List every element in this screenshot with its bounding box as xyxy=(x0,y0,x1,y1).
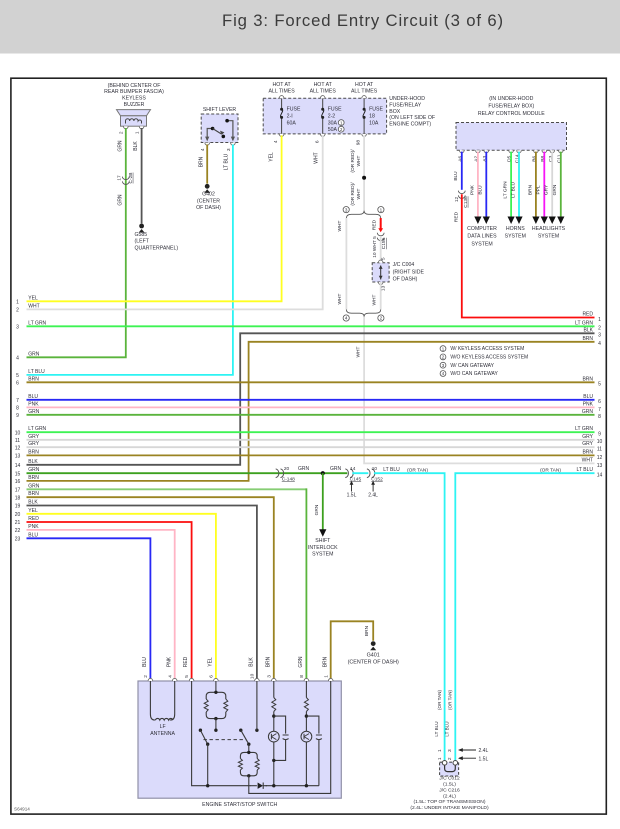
splice dot on WHT wire xyxy=(362,176,366,180)
svg-text:KEYLESS: KEYLESS xyxy=(122,96,146,102)
wire WHT fuse 18 down to split xyxy=(363,135,365,211)
variant circle 4 bottom left xyxy=(343,315,349,321)
svg-text:SYSTEM: SYSTEM xyxy=(538,234,559,240)
connector 10 C152 xyxy=(367,466,383,482)
wire row 17 drop to switch xyxy=(27,488,307,490)
svg-text:WHT: WHT xyxy=(356,188,362,199)
connector 20 C-148 on row 15 xyxy=(276,466,295,482)
svg-text:2-I: 2-I xyxy=(287,114,293,120)
wire WHT right branch above junction block xyxy=(380,236,382,263)
C012 pin labels 2.4L xyxy=(437,748,489,754)
svg-text:BRN: BRN xyxy=(527,184,533,195)
svg-text:Fig 3: Forced Entry Circuit (3: Fig 3: Forced Entry Circuit (3 of 6) xyxy=(222,11,504,30)
wire WHT fuse 2-2 to left row 2 xyxy=(27,135,323,309)
svg-text:LT BLU: LT BLU xyxy=(434,721,439,736)
svg-text:4: 4 xyxy=(200,148,206,151)
svg-text:2.4L: 2.4L xyxy=(479,748,489,754)
wire GRN from relay module pin C11 to system arrow xyxy=(560,152,562,217)
switch pin number labels xyxy=(143,673,329,679)
svg-text:4: 4 xyxy=(345,316,348,321)
svg-text:3: 3 xyxy=(16,325,19,331)
svg-text:2-2: 2-2 xyxy=(328,114,336,120)
wire PNK from relay module pin A2 to system arrow xyxy=(477,152,479,217)
connector C156 on right branch xyxy=(377,233,387,249)
wire GRY from relay module pin C3 to system arrow xyxy=(551,152,553,217)
svg-text:SHIFT: SHIFT xyxy=(315,538,331,544)
svg-text:3: 3 xyxy=(345,207,348,212)
transistor circuit at pin 3 xyxy=(268,681,289,787)
arrow pin B6 xyxy=(532,217,539,225)
svg-text:C136: C136 xyxy=(463,196,469,208)
svg-text:(1.5L): (1.5L) xyxy=(443,782,456,788)
svg-text:4: 4 xyxy=(273,140,279,143)
svg-text:10: 10 xyxy=(597,439,603,445)
svg-text:C156: C156 xyxy=(381,237,387,249)
svg-text:50A: 50A xyxy=(328,127,338,133)
wire row 10 across xyxy=(27,431,595,433)
wire row 7 across xyxy=(27,399,595,401)
svg-text:(1.5L: TOP OF TRANSMISSION): (1.5L: TOP OF TRANSMISSION) xyxy=(414,799,486,805)
variant circle 2 bottom right xyxy=(378,315,384,321)
svg-text:2: 2 xyxy=(119,131,125,134)
rail junction dot left switch xyxy=(206,784,209,787)
svg-text:6: 6 xyxy=(314,140,320,143)
svg-text:W/ KEYLESS ACCESS SYSTEM: W/ KEYLESS ACCESS SYSTEM xyxy=(450,346,524,352)
svg-text:7: 7 xyxy=(16,398,19,404)
connector 12 C136 on A6 wire xyxy=(454,191,469,208)
wire row 18 drop to switch xyxy=(27,497,274,679)
resistor pair loop below right switch xyxy=(238,751,259,778)
svg-text:7: 7 xyxy=(598,407,601,413)
wire BRN shift lever pin 4 to ground G402 xyxy=(206,144,208,183)
C012 pin labels 1.5L xyxy=(437,756,489,762)
svg-text:PPL: PPL xyxy=(536,185,542,194)
svg-text:W/ CAN GATEWAY: W/ CAN GATEWAY xyxy=(450,363,494,369)
svg-text:RED: RED xyxy=(183,656,189,667)
connector 14 C145 xyxy=(345,466,361,482)
svg-text:12: 12 xyxy=(15,445,21,451)
hot at all times labels xyxy=(268,82,377,94)
svg-text:6: 6 xyxy=(16,381,19,387)
svg-text:COMPUTER: COMPUTER xyxy=(467,226,497,232)
svg-text:2: 2 xyxy=(598,326,601,332)
arrow pin C14 xyxy=(515,217,522,225)
ganged switch right half xyxy=(239,729,259,753)
svg-text:RED: RED xyxy=(372,219,378,230)
wire BRN right row 4 to left row 16 xyxy=(27,342,595,481)
arrow pin C3 xyxy=(549,217,556,225)
svg-text:1: 1 xyxy=(437,749,443,752)
svg-text:(2.4L): (2.4L) xyxy=(443,793,456,799)
svg-text:HOT AT: HOT AT xyxy=(272,82,291,88)
svg-text:SYSTEM: SYSTEM xyxy=(505,234,526,240)
svg-text:14: 14 xyxy=(350,466,356,472)
shift interlock system caption xyxy=(308,538,338,557)
svg-text:BLU: BLU xyxy=(453,171,459,181)
svg-text:LT GRN: LT GRN xyxy=(503,181,509,199)
svg-text:4: 4 xyxy=(598,341,601,347)
svg-text:(OR RED)/: (OR RED)/ xyxy=(350,149,356,173)
svg-text:OF DASH): OF DASH) xyxy=(393,277,418,283)
svg-text:BLU: BLU xyxy=(142,657,148,667)
svg-text:S64914: S64914 xyxy=(14,807,30,812)
wire BRN from relay module pin B6 to system arrow xyxy=(535,152,537,217)
wire row 21 drop to switch xyxy=(27,522,192,679)
label OR RED WHT upper xyxy=(350,149,362,173)
svg-text:GRY: GRY xyxy=(544,184,550,195)
svg-text:ENGINE COMPT): ENGINE COMPT) xyxy=(389,121,431,127)
svg-text:GRN: GRN xyxy=(552,184,558,195)
svg-text:3: 3 xyxy=(226,148,232,151)
svg-text:6: 6 xyxy=(598,399,601,405)
svg-text:BUZZER: BUZZER xyxy=(124,102,145,108)
svg-text:PNK: PNK xyxy=(166,656,172,667)
svg-text:(ON LEFT SIDE OF: (ON LEFT SIDE OF xyxy=(389,115,435,121)
svg-text:8: 8 xyxy=(16,406,19,412)
wire row 19 drop to switch xyxy=(27,506,257,680)
under-hood fuse relay box xyxy=(263,98,386,134)
right edge pin numbers 1-14 xyxy=(597,317,603,479)
brace split top xyxy=(346,211,380,218)
svg-text:J/C C012: J/C C012 xyxy=(439,776,460,782)
keyless buzzer symbol xyxy=(117,110,151,129)
svg-text:(CENTER OF DASH): (CENTER OF DASH) xyxy=(348,660,399,666)
wire row 13 across xyxy=(27,454,595,456)
svg-text:12: 12 xyxy=(597,455,603,461)
svg-text:WHT: WHT xyxy=(355,346,361,357)
variant legend xyxy=(440,346,528,377)
wire YEL fuse 2-I to left row 1 xyxy=(27,135,282,301)
wire RED right branch xyxy=(380,218,382,229)
wire row 23 drop to switch xyxy=(27,538,151,679)
wire LT BLU from right row 14 down to junction block C012 xyxy=(455,473,594,761)
svg-text:1.5L: 1.5L xyxy=(479,756,489,762)
svg-text:WHT: WHT xyxy=(337,220,343,231)
wire BLU from relay module pin A6 xyxy=(461,152,463,190)
svg-text:(OR TAN): (OR TAN) xyxy=(540,467,561,473)
svg-text:2: 2 xyxy=(16,308,19,314)
wire BLK right row 3 to left row 14 xyxy=(27,333,595,465)
J/C C012 caption xyxy=(410,776,489,812)
svg-text:4: 4 xyxy=(16,356,19,362)
svg-text:5: 5 xyxy=(381,257,387,260)
svg-text:YEL: YEL xyxy=(269,152,275,162)
svg-text:ALL TIMES: ALL TIMES xyxy=(351,89,378,95)
wire row 20 drop to switch xyxy=(27,514,216,679)
ground G402 xyxy=(196,184,221,211)
wire BLK pin 10 internal drop xyxy=(256,681,258,730)
svg-text:LT BLU: LT BLU xyxy=(224,153,230,170)
svg-text:(OR RED)/: (OR RED)/ xyxy=(350,182,356,206)
relay control module caption xyxy=(478,96,545,117)
svg-text:2: 2 xyxy=(447,757,453,760)
left edge wire colour labels xyxy=(28,295,46,538)
svg-text:10: 10 xyxy=(250,673,256,679)
svg-text:12: 12 xyxy=(454,197,460,203)
svg-text:5: 5 xyxy=(16,373,19,379)
wire BLU from relay module pin A3 to system arrow xyxy=(485,152,487,217)
svg-text:(2.4L: UNDER INTAKE MANIFOLD): (2.4L: UNDER INTAKE MANIFOLD) xyxy=(410,805,489,811)
svg-text:11: 11 xyxy=(597,447,602,453)
connector 17 C-2B on GRN wire xyxy=(117,173,134,185)
ground G585 xyxy=(135,224,179,252)
arrow pin B8 xyxy=(541,217,548,225)
svg-text:FUSE/RELAY: FUSE/RELAY xyxy=(389,103,421,109)
wire GRN from buzzer pin 2 to left row 4 xyxy=(27,128,126,357)
svg-text:11: 11 xyxy=(15,438,20,444)
label OR RED WHT lower xyxy=(350,182,362,206)
svg-text:3: 3 xyxy=(598,333,601,339)
svg-text:GRN: GRN xyxy=(330,466,342,472)
svg-text:3: 3 xyxy=(266,675,272,678)
internal return line to pin 1 xyxy=(249,681,331,793)
svg-text:10: 10 xyxy=(15,430,21,436)
title banner xyxy=(0,0,620,54)
wire RED from C136 to right row 1 xyxy=(462,194,595,317)
wire LT BLU from C152 down to junction block C012 xyxy=(374,473,445,761)
svg-text:G401: G401 xyxy=(367,652,380,658)
shift lever switch contacts and blade xyxy=(205,119,235,145)
svg-text:FUSE: FUSE xyxy=(369,107,383,113)
svg-text:17: 17 xyxy=(15,488,21,494)
arrow pin A2 xyxy=(474,217,481,225)
svg-text:DATA LINES: DATA LINES xyxy=(467,234,497,240)
svg-text:ANTENNA: ANTENNA xyxy=(150,731,175,737)
svg-text:SYSTEM: SYSTEM xyxy=(312,551,333,557)
svg-text:YEL: YEL xyxy=(208,657,214,667)
fuse 2-2 30A/50A xyxy=(320,96,344,137)
svg-text:5: 5 xyxy=(184,675,190,678)
wire WHT merged down to right row 13 xyxy=(364,317,594,464)
arrow pin D5 xyxy=(508,217,515,225)
internal rail from pin 5 xyxy=(192,681,319,786)
svg-text:18: 18 xyxy=(15,495,21,501)
wire row 9 across xyxy=(27,414,595,416)
svg-text:ENGINE START/STOP SWITCH: ENGINE START/STOP SWITCH xyxy=(202,802,277,808)
svg-text:HORNS: HORNS xyxy=(506,226,525,232)
wire row 11 across xyxy=(27,439,595,441)
wire PPL from relay module pin B8 to system arrow xyxy=(543,152,545,217)
svg-text:1: 1 xyxy=(16,300,19,306)
svg-text:1.5L: 1.5L xyxy=(347,493,357,499)
svg-text:14: 14 xyxy=(597,473,603,479)
svg-text:G585: G585 xyxy=(135,232,148,238)
variant arrow 1.5L under C145 xyxy=(347,481,357,499)
svg-text:BLU: BLU xyxy=(478,185,484,195)
svg-text:98: 98 xyxy=(356,140,362,146)
system caption horns xyxy=(505,226,526,240)
svg-text:SHIFT LEVER: SHIFT LEVER xyxy=(203,107,237,113)
svg-text:G402: G402 xyxy=(202,192,215,198)
wire LT BLU shift lever pin 3 to left row 5 xyxy=(27,144,233,375)
variant arrow 2.4L under C152 xyxy=(368,481,378,499)
arrow to shift interlock system xyxy=(319,529,326,537)
svg-text:GRN: GRN xyxy=(117,140,123,152)
wire row 12 across xyxy=(27,446,595,448)
svg-text:1: 1 xyxy=(598,317,601,323)
svg-text:BLK: BLK xyxy=(133,141,139,151)
svg-text:W/O KEYLESS ACCESS SYSTEM: W/O KEYLESS ACCESS SYSTEM xyxy=(450,355,528,361)
LF antenna caption xyxy=(150,724,175,737)
arrow pin A3 xyxy=(483,217,490,225)
wire BLK from buzzer pin 1 to ground G585 xyxy=(141,128,143,224)
fuse box caption xyxy=(389,96,435,127)
fuse 2-I 60A xyxy=(279,96,301,137)
labels OR TAN on C012 wires xyxy=(437,690,453,710)
svg-text:BRN: BRN xyxy=(364,625,370,636)
svg-text:(LEFT: (LEFT xyxy=(135,239,150,245)
svg-text:1: 1 xyxy=(323,675,329,678)
svg-text:WHT: WHT xyxy=(356,155,362,166)
svg-text:FUSE/RELAY BOX): FUSE/RELAY BOX) xyxy=(488,103,534,109)
svg-text:BRN: BRN xyxy=(322,656,328,667)
svg-text:(IN UNDER-HOOD: (IN UNDER-HOOD xyxy=(489,96,533,102)
svg-text:J/C C216: J/C C216 xyxy=(439,787,460,793)
svg-text:(OR TAN): (OR TAN) xyxy=(448,690,453,710)
ground G401 xyxy=(348,641,399,665)
engine start stop switch box xyxy=(138,681,341,798)
svg-text:GRN: GRN xyxy=(117,194,123,206)
svg-text:INTERLOCK: INTERLOCK xyxy=(308,545,338,551)
svg-text:BLK: BLK xyxy=(249,657,255,667)
svg-text:13: 13 xyxy=(15,454,21,460)
svg-text:BRN: BRN xyxy=(199,156,205,167)
wire GRN junction drop to shift interlock arrow xyxy=(322,473,324,529)
svg-text:1: 1 xyxy=(135,131,141,134)
svg-text:J/C C004: J/C C004 xyxy=(393,262,415,268)
resistor pair loop at pin 6 xyxy=(204,681,228,730)
svg-text:BRN: BRN xyxy=(265,656,271,667)
svg-text:(BEHIND CENTER OF: (BEHIND CENTER OF xyxy=(108,83,161,89)
transistor circuit at pin 8 xyxy=(301,681,322,787)
svg-text:RED: RED xyxy=(454,211,460,222)
wire GRN left row 15 to connector C145 xyxy=(27,472,348,474)
svg-text:(RIGHT SIDE: (RIGHT SIDE xyxy=(393,269,425,275)
svg-text:FUSE: FUSE xyxy=(328,107,342,113)
fuse 18 10A xyxy=(362,96,384,137)
variant circle 1 top right xyxy=(378,207,384,213)
svg-text:UNDER-HOOD: UNDER-HOOD xyxy=(389,96,425,102)
svg-text:6: 6 xyxy=(209,675,215,678)
right edge wire colour labels xyxy=(575,312,594,474)
wire LT BLU from relay module pin C14 to system arrow xyxy=(518,152,520,217)
svg-text:20: 20 xyxy=(15,512,21,518)
svg-text:WHT: WHT xyxy=(313,152,319,163)
svg-text:8: 8 xyxy=(598,414,601,420)
svg-text:RELAY CONTROL MODULE: RELAY CONTROL MODULE xyxy=(478,111,545,117)
svg-text:19: 19 xyxy=(15,504,21,510)
system caption headlights xyxy=(532,226,566,240)
ganged switch left half xyxy=(199,729,218,786)
diode on rail xyxy=(250,782,267,790)
svg-text:5: 5 xyxy=(598,382,601,388)
wire row 3 across xyxy=(27,325,595,327)
svg-text:8: 8 xyxy=(299,675,305,678)
svg-text:HEADLIGHTS: HEADLIGHTS xyxy=(532,226,566,232)
svg-text:14: 14 xyxy=(15,463,21,469)
svg-text:LT BLU: LT BLU xyxy=(510,182,516,198)
svg-text:10A: 10A xyxy=(369,120,379,126)
svg-text:30A: 30A xyxy=(328,120,338,126)
svg-text:QUARTERPANEL): QUARTERPANEL) xyxy=(135,245,179,251)
svg-text:13: 13 xyxy=(597,463,603,469)
svg-text:21: 21 xyxy=(15,520,21,526)
wire WHT left branch xyxy=(345,218,347,310)
svg-text:20: 20 xyxy=(284,466,290,472)
svg-text:SYSTEM: SYSTEM xyxy=(471,242,492,248)
svg-text:GRN: GRN xyxy=(314,504,320,515)
svg-text:LT BLU: LT BLU xyxy=(383,467,400,473)
svg-text:2: 2 xyxy=(380,316,383,321)
svg-text:17: 17 xyxy=(117,175,123,181)
shift lever switch box xyxy=(201,114,238,143)
system caption computer data lines xyxy=(467,226,497,248)
keyless buzzer location label xyxy=(104,83,164,108)
arrow pin C11 xyxy=(557,217,564,225)
svg-text:9: 9 xyxy=(16,413,19,419)
svg-text:3: 3 xyxy=(447,749,453,752)
svg-text:16: 16 xyxy=(15,479,21,485)
relay module pin labels xyxy=(457,154,562,163)
brace merge bottom xyxy=(346,310,380,317)
svg-text:WHT: WHT xyxy=(372,294,378,305)
wire row 22 drop to switch xyxy=(27,530,175,679)
svg-text:GRN: GRN xyxy=(298,466,310,472)
svg-text:(OR TAN): (OR TAN) xyxy=(437,690,442,710)
svg-text:HOT AT: HOT AT xyxy=(355,82,374,88)
left edge pin numbers 1-23 xyxy=(15,300,21,543)
svg-text:10 WHT 5: 10 WHT 5 xyxy=(372,236,378,258)
svg-text:23: 23 xyxy=(15,537,21,543)
wire WHT right branch below junction block xyxy=(380,282,382,310)
svg-text:BOX: BOX xyxy=(389,109,400,115)
switch pin bumps xyxy=(148,678,333,681)
svg-text:10: 10 xyxy=(372,466,378,472)
svg-text:9: 9 xyxy=(598,432,601,438)
svg-text:W/O CAN GATEWAY: W/O CAN GATEWAY xyxy=(450,371,498,377)
svg-text:15: 15 xyxy=(15,471,21,477)
svg-text:60A: 60A xyxy=(287,120,297,126)
svg-text:ALL TIMES: ALL TIMES xyxy=(310,89,337,95)
variant circle 3 top left xyxy=(343,207,349,213)
junction dot row 15 xyxy=(321,471,325,475)
svg-text:LT BLU: LT BLU xyxy=(445,721,450,736)
svg-text:REAR BUMPER FASCIA): REAR BUMPER FASCIA) xyxy=(104,89,164,95)
J/C C004 caption xyxy=(393,262,425,282)
wire row 8 across xyxy=(27,406,595,408)
svg-text:1: 1 xyxy=(437,757,443,760)
junction block J/C C012 xyxy=(440,761,459,777)
svg-text:ALL TIMES: ALL TIMES xyxy=(268,89,295,95)
svg-text:C-2B: C-2B xyxy=(128,173,134,184)
switch linkage dashed xyxy=(204,739,247,741)
svg-text:WHT: WHT xyxy=(337,293,343,304)
labels LT BLU on C012 wires xyxy=(434,721,450,736)
svg-text:4: 4 xyxy=(167,675,173,678)
LF antenna coil xyxy=(150,681,174,720)
svg-text:FUSE: FUSE xyxy=(287,107,301,113)
svg-text:(CENTER: (CENTER xyxy=(197,198,220,204)
svg-text:1: 1 xyxy=(380,207,383,212)
svg-text:LF: LF xyxy=(160,724,166,730)
wire row 6 across xyxy=(27,381,595,383)
svg-text:2.4L: 2.4L xyxy=(368,493,378,499)
svg-text:2: 2 xyxy=(143,675,149,678)
relay control module box xyxy=(456,123,567,151)
svg-text:22: 22 xyxy=(15,528,21,534)
svg-text:PNK: PNK xyxy=(469,184,475,195)
wire LT BLU between C145 and C152 xyxy=(352,472,368,474)
